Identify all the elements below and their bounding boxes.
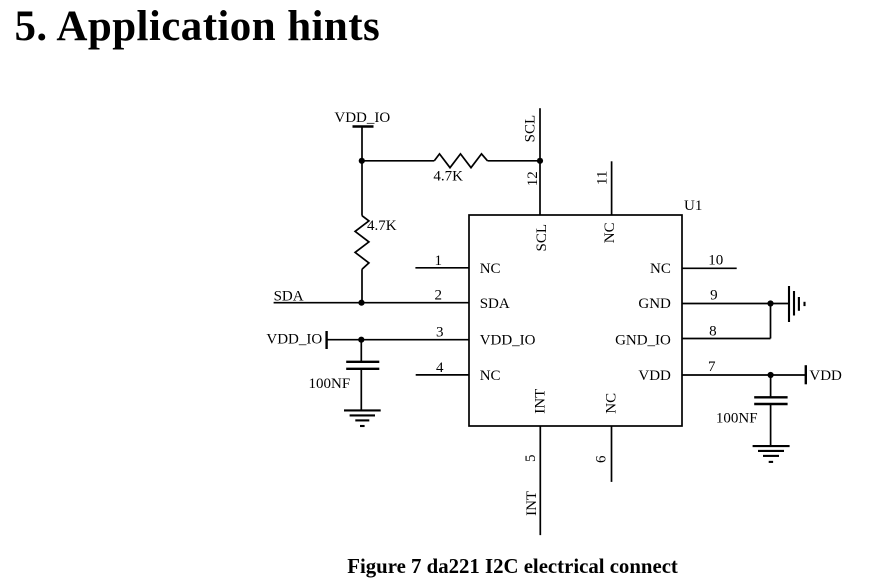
ground (right, below C2): [753, 446, 790, 462]
resistor R1 4.7K (horizontal): [433, 154, 487, 185]
node E junction: [767, 300, 773, 306]
wire R2 to node C: [361, 269, 363, 303]
svg-text:GND: GND: [638, 296, 671, 312]
pin 1 stub: [415, 267, 469, 269]
svg-text:VDD_IO: VDD_IO: [334, 110, 390, 126]
pin 5 stub / INT net: [539, 426, 541, 535]
wire pin 8: [682, 338, 771, 340]
wire SDA net to pin 2: [274, 302, 469, 304]
svg-text:9: 9: [710, 288, 718, 304]
svg-text:VDD_IO: VDD_IO: [266, 332, 322, 348]
wire VDD_IO rail to pin 3: [327, 339, 469, 341]
wire R1 to node B: [488, 160, 541, 162]
node C junction: [358, 300, 364, 306]
svg-text:1: 1: [435, 253, 443, 269]
wire node A to resistor R1: [362, 160, 434, 162]
wire pin 8 up to node E: [770, 304, 772, 339]
node A junction: [359, 158, 365, 164]
svg-text:VDD: VDD: [809, 368, 842, 384]
svg-text:6: 6: [594, 455, 610, 463]
svg-text:4: 4: [436, 360, 444, 376]
svg-text:8: 8: [709, 324, 717, 340]
svg-text:5. Application hints: 5. Application hints: [15, 3, 381, 50]
power rail VDD (right): [806, 365, 842, 384]
ground (left, below C1): [344, 410, 381, 426]
svg-text:SCL: SCL: [523, 115, 539, 143]
wire C2 to ground: [770, 404, 772, 446]
wire C1 to ground: [360, 369, 362, 411]
wire SCL net / pin 12 stub: [539, 108, 541, 215]
node F junction: [768, 372, 774, 378]
IC U1 body: [469, 215, 682, 426]
wire VDD_IO rail down to node A: [361, 127, 363, 162]
svg-text:NC: NC: [480, 261, 501, 277]
svg-text:U1: U1: [684, 198, 702, 214]
svg-text:NC: NC: [650, 261, 671, 277]
power rail VDD_IO (left): [266, 331, 326, 349]
ground (right of pin 9, rotated): [789, 286, 805, 322]
svg-text:INT: INT: [524, 491, 540, 516]
wire node A down to resistor R2: [361, 161, 363, 216]
pin 6 stub: [611, 426, 613, 482]
svg-text:10: 10: [708, 252, 723, 268]
svg-text:NC: NC: [480, 368, 501, 384]
node D junction: [358, 337, 364, 343]
svg-text:NC: NC: [603, 393, 619, 414]
wire pin 7 to VDD rail: [682, 374, 806, 376]
svg-text:3: 3: [436, 325, 444, 341]
node B junction on SCL net: [537, 158, 543, 164]
svg-text:4.7K: 4.7K: [367, 218, 397, 234]
svg-text:5: 5: [523, 455, 539, 463]
svg-text:VDD_IO: VDD_IO: [480, 333, 536, 349]
svg-text:100NF: 100NF: [309, 376, 351, 392]
wire node F to capacitor C2: [770, 375, 772, 397]
wire node D to capacitor C1: [360, 340, 362, 362]
power rail VDD_IO (top): [334, 110, 390, 127]
svg-text:INT: INT: [532, 389, 548, 414]
pin 10 stub: [682, 267, 737, 269]
svg-text:Figure 7 da221 I2C electrical: Figure 7 da221 I2C electrical connect: [347, 555, 678, 578]
svg-text:11: 11: [594, 171, 610, 185]
capacitor C2 100NF: [716, 397, 788, 426]
svg-text:NC: NC: [602, 222, 618, 243]
svg-text:VDD: VDD: [638, 368, 671, 384]
svg-text:100NF: 100NF: [716, 411, 758, 427]
svg-text:7: 7: [708, 359, 716, 375]
pin 11 stub: [611, 161, 613, 215]
svg-text:12: 12: [525, 171, 541, 186]
resistor R2 4.7K (vertical): [355, 216, 397, 270]
wire pin 9 to ground: [682, 303, 788, 305]
svg-text:SCL: SCL: [534, 224, 550, 252]
svg-text:2: 2: [435, 288, 443, 304]
capacitor C1 100NF: [309, 362, 380, 392]
pin 4 stub: [416, 374, 469, 376]
svg-text:GND_IO: GND_IO: [615, 333, 671, 349]
svg-text:SDA: SDA: [480, 296, 510, 312]
svg-text:4.7K: 4.7K: [433, 168, 463, 184]
